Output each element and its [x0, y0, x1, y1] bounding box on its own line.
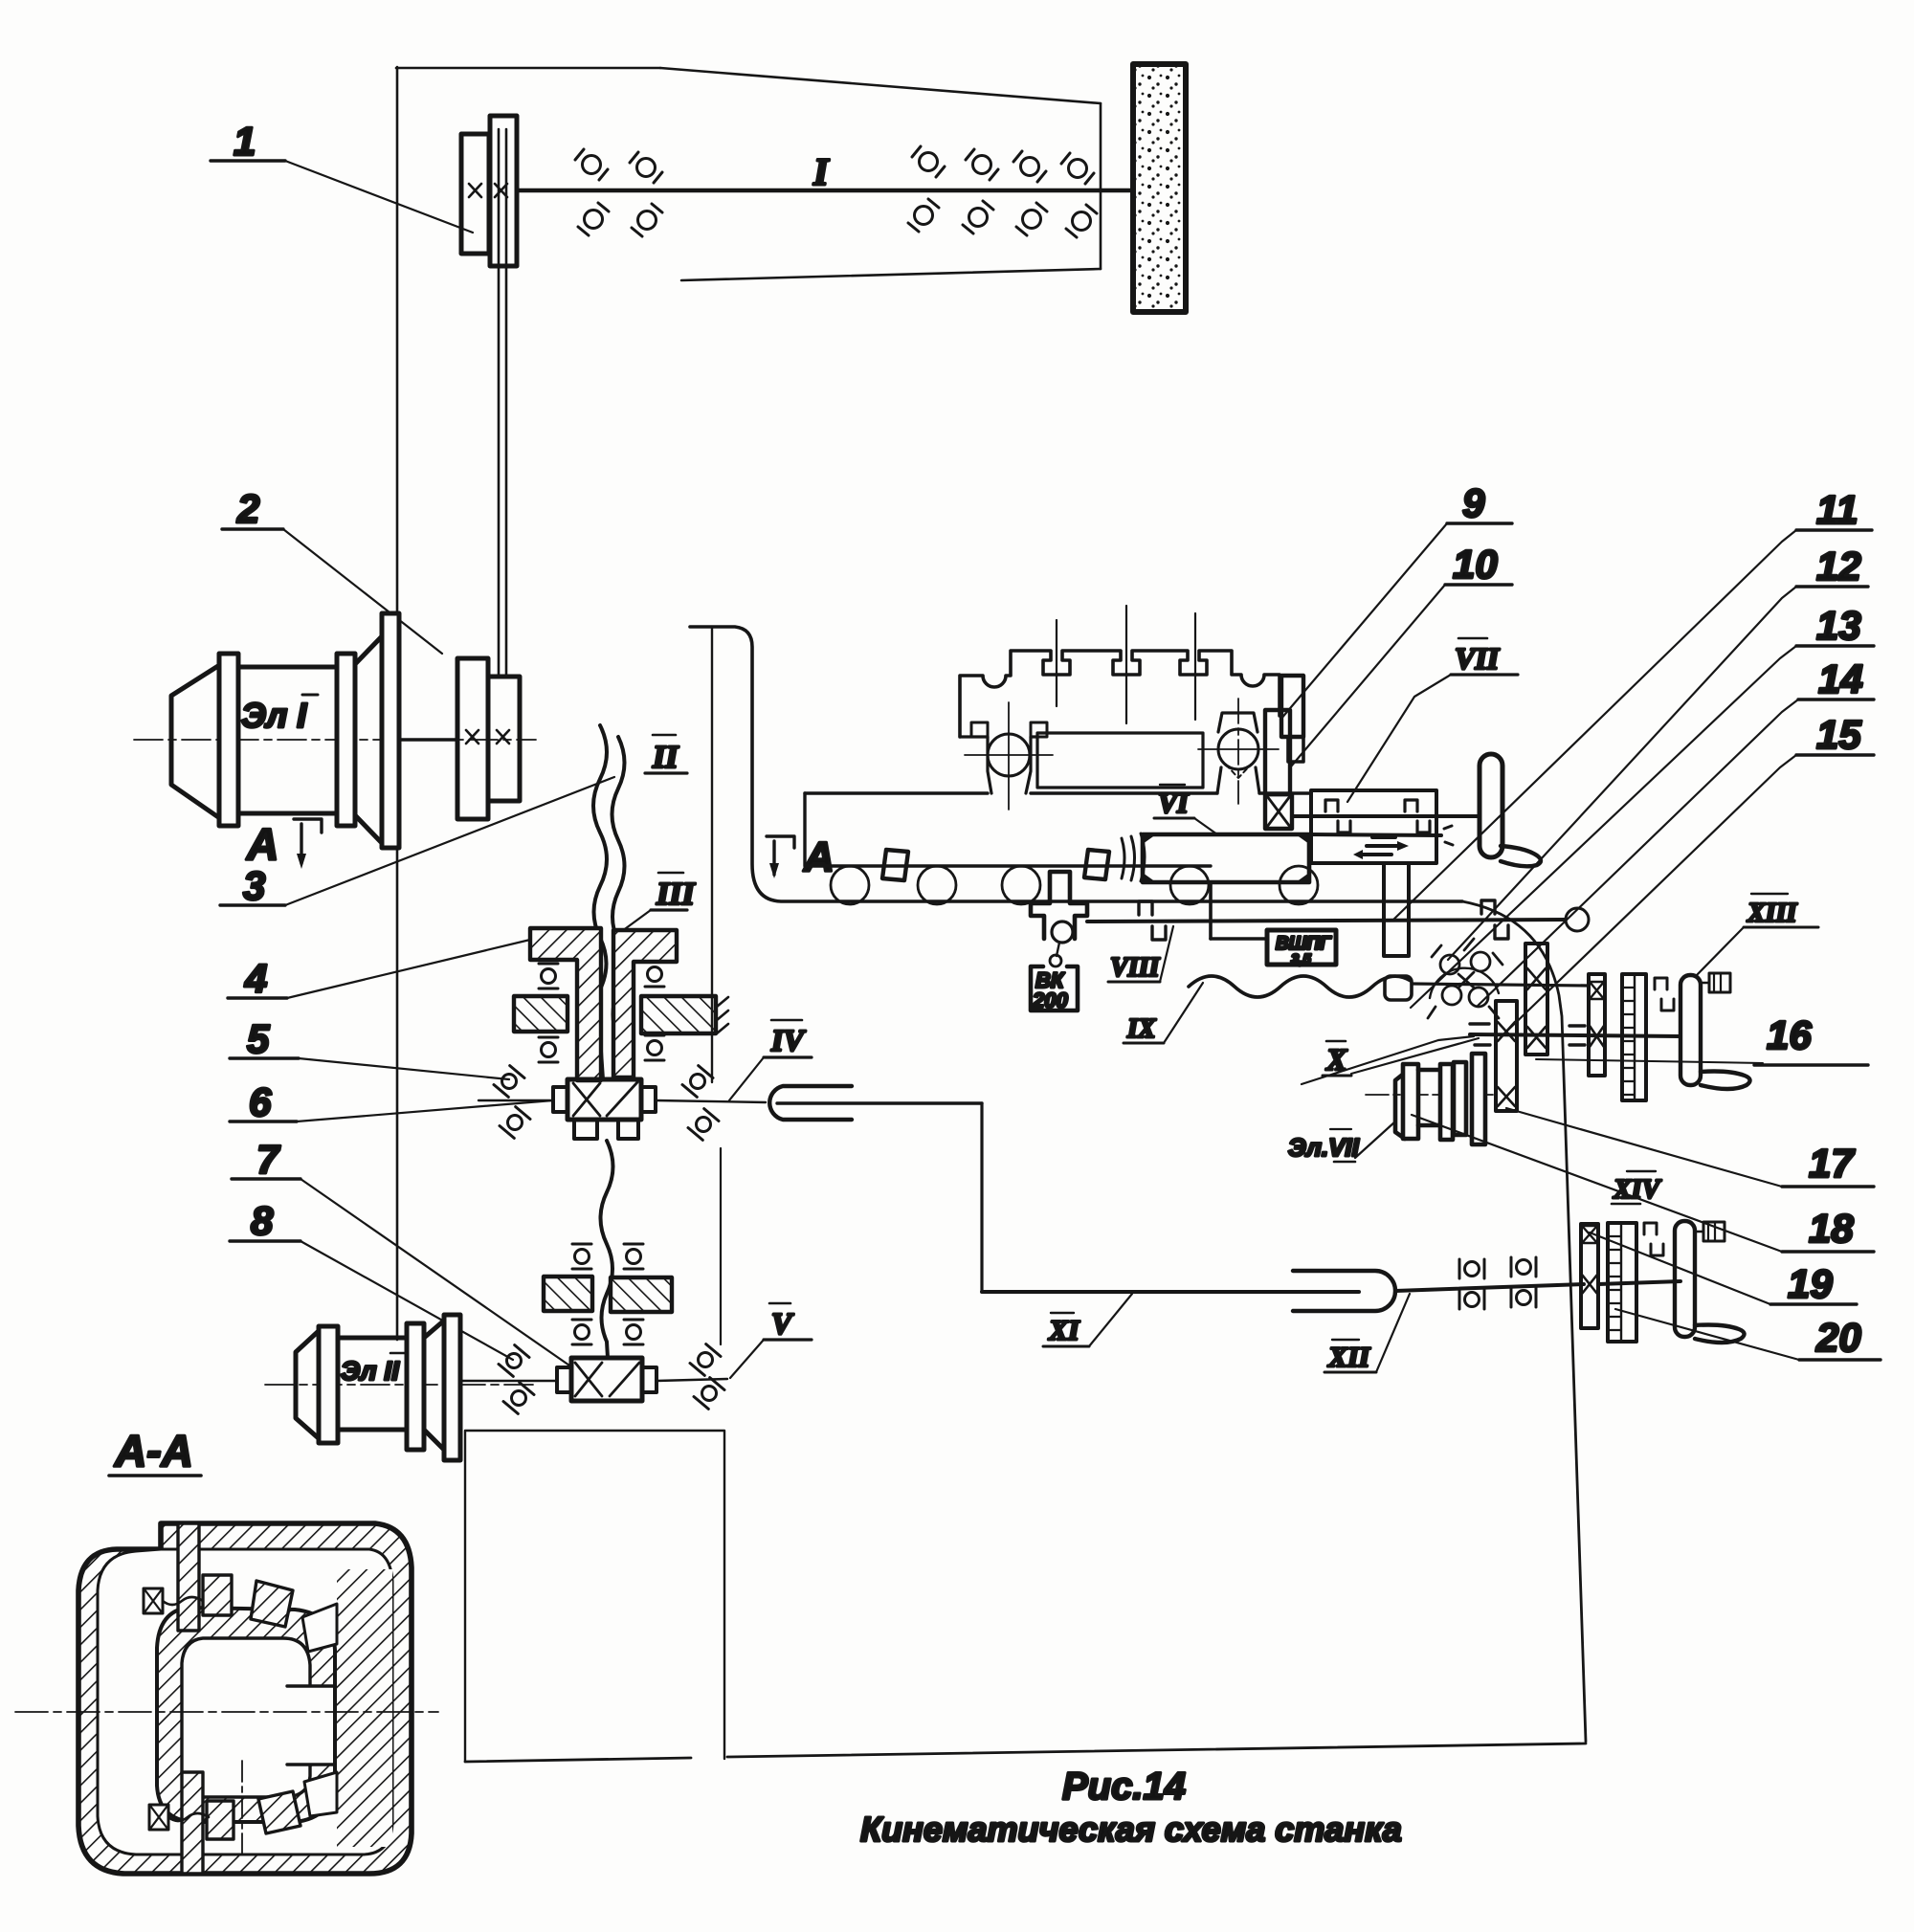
- motor EL-I taper to flange: [355, 635, 383, 844]
- motor EL-I body: [238, 667, 339, 813]
- A-A top bearing block: [203, 1575, 232, 1615]
- gear shift arrows in box: [1363, 837, 1397, 855]
- gear pair symbols on shaft I (right group): [912, 146, 945, 177]
- screw end XIV: [1695, 1231, 1703, 1233]
- chain IX wavy line: [1189, 976, 1411, 997]
- screw end XIII: [1701, 982, 1709, 985]
- shaft IV: [478, 1099, 553, 1101]
- shaft VII: [1292, 814, 1480, 818]
- svg-text:16: 16: [1767, 1012, 1812, 1057]
- A-A thick right wall (hatched): [337, 1569, 392, 1847]
- bearing V shaft right pair: [690, 1344, 721, 1376]
- wire: wheel head bottom edge: [681, 269, 1101, 280]
- A-A inner wall: [98, 1549, 392, 1854]
- A-A inner housing (hatched): [157, 1608, 335, 1822]
- svg-text:8: 8: [251, 1198, 274, 1243]
- machine bed outline with rounded corners: [690, 627, 1462, 901]
- bearing II right upper: [645, 962, 664, 987]
- motor EL-I shaft to pulley: [399, 738, 457, 741]
- link line IV down to XI: [980, 1103, 983, 1292]
- motor EL-II centre line: [265, 1384, 536, 1386]
- bearing II left upper: [539, 964, 558, 988]
- svg-text:6: 6: [249, 1079, 272, 1124]
- svg-text:1: 1: [234, 119, 256, 164]
- gear pair symbols on shaft I (left group): [575, 149, 608, 180]
- centre line through XIII: [1536, 1059, 1763, 1063]
- motor EL-II body: [338, 1338, 409, 1430]
- A-A bottom bearing block: [207, 1801, 234, 1839]
- saddle lug right: [1084, 850, 1109, 879]
- bearing block with X on shaft VII: [1265, 794, 1292, 829]
- A-A vertical column strip top: [178, 1523, 199, 1631]
- A-A cavity step: [287, 1686, 333, 1765]
- vertical gear column under box: [1384, 863, 1409, 956]
- table underside: [960, 735, 988, 738]
- motor EL-I ring 2: [337, 654, 355, 826]
- drive down from cylinder VI: [1209, 882, 1213, 939]
- wall mount ticks: [717, 997, 728, 1033]
- svg-text:X: X: [1325, 1042, 1347, 1077]
- belt to lower pulley: [498, 129, 501, 675]
- svg-text:XIV: XIV: [1613, 1175, 1662, 1205]
- crank handle XIV: [1695, 1325, 1745, 1344]
- svg-text:3: 3: [243, 863, 265, 908]
- pulley pair P2: [457, 658, 488, 819]
- svg-text:XI: XI: [1048, 1315, 1080, 1346]
- lower body rectangle: [465, 1431, 724, 1762]
- svg-text:10: 10: [1453, 542, 1498, 587]
- shaft XII: [1395, 1284, 1584, 1291]
- svg-text:IV: IV: [770, 1023, 806, 1057]
- svg-text:VII: VII: [1455, 641, 1501, 676]
- shaft IX: [1412, 984, 1589, 986]
- table profile with T-slots: [960, 651, 1280, 737]
- svg-text:А-А: А-А: [114, 1426, 193, 1476]
- gear w lower-left (hatched): [514, 996, 568, 1032]
- A-A bearing box with X (top): [144, 1588, 163, 1613]
- svg-text:18: 18: [1809, 1206, 1854, 1251]
- wire: long left vertical frame line: [396, 67, 399, 1340]
- weight BK200: [1057, 943, 1059, 956]
- gear wheel XIII (toothed): [1622, 974, 1646, 1100]
- A-A housing cavity: [182, 1638, 310, 1797]
- bearing V left upper: [572, 1244, 591, 1269]
- A-A bearing box with X (bottom): [149, 1805, 168, 1830]
- svg-text:А: А: [246, 819, 278, 869]
- bearing column XIV: [1581, 1224, 1598, 1328]
- svg-text:V: V: [771, 1306, 794, 1341]
- hydraulic unit VShPG 3,5: [1267, 930, 1336, 965]
- grinding wheel (abrasive disc): [1133, 64, 1186, 312]
- A-A vertical column strip bottom: [182, 1772, 203, 1874]
- svg-text:I: I: [812, 150, 830, 193]
- svg-text:XII: XII: [1327, 1342, 1371, 1373]
- svg-text:XIII: XIII: [1747, 899, 1797, 928]
- gear V left (hatched): [544, 1277, 592, 1311]
- left journal bearing: [988, 734, 1030, 776]
- gear wheel XIV (toothed): [1608, 1223, 1636, 1342]
- gear column G3: [1589, 974, 1605, 1076]
- gearbox V: [571, 1358, 642, 1401]
- gearbox IV (speed box): [568, 1079, 641, 1120]
- bracket guide 9: [1281, 676, 1303, 737]
- clutch pair VII left: [1325, 800, 1350, 833]
- svg-text:11: 11: [1816, 487, 1858, 532]
- svg-text:15: 15: [1816, 712, 1861, 757]
- fork on shaft XII: [1293, 1271, 1395, 1311]
- shaft X: [1470, 1034, 1680, 1036]
- motor EL-I centre line: [134, 739, 536, 741]
- idler gear block: [1385, 976, 1412, 1000]
- svg-text:III: III: [656, 877, 696, 912]
- wire: top frame edge: [396, 67, 660, 70]
- hook bracket with pulley: [1031, 872, 1087, 939]
- bearing II right lower: [645, 1035, 664, 1060]
- casing arc over cluster: [1430, 968, 1499, 998]
- gearbox VII housing: [1311, 790, 1436, 863]
- svg-text:4: 4: [244, 956, 267, 1001]
- A-A horizontal centre line: [15, 1711, 438, 1713]
- chain II wavy line (double): [593, 725, 607, 1079]
- motor EL-II cone: [296, 1329, 321, 1440]
- A-A white wedge top right: [302, 1604, 337, 1652]
- svg-text:А: А: [803, 833, 835, 880]
- wire: top diagonal to wheel head: [660, 68, 1101, 103]
- A-A white wedge bottom right: [304, 1772, 337, 1816]
- bearing V shaft left pair: [499, 1345, 529, 1377]
- shaft through XIV train: [1598, 1281, 1680, 1284]
- bearing II left lower: [539, 1037, 558, 1062]
- svg-text:Эл I: Эл I: [241, 696, 307, 735]
- handwheel VII: [1480, 754, 1502, 857]
- machine column left edge: [711, 627, 713, 1082]
- motor EL-I ring 1: [219, 654, 238, 826]
- clutch on shaft VIII: [1139, 901, 1166, 940]
- pulley pair P1 on shaft I: [461, 134, 489, 254]
- clutch XIV: [1644, 1223, 1663, 1255]
- right journal bearing: [1218, 729, 1258, 769]
- saddle body: [805, 791, 1311, 794]
- gear column G2 (el-VII drive): [1496, 1001, 1517, 1111]
- shaft I: [518, 189, 1133, 193]
- motor EL-VII: [1366, 1094, 1493, 1096]
- svg-text:2: 2: [236, 486, 259, 531]
- lower feed shaft through box: [1309, 834, 1441, 835]
- clutch pair VII right: [1405, 800, 1430, 833]
- svg-text:7: 7: [256, 1137, 280, 1182]
- motor EL-II flange: [444, 1315, 460, 1460]
- clutch XIII: [1655, 978, 1674, 1010]
- chain II wavy continuation below gearbox IV: [601, 1141, 613, 1358]
- svg-text:Рис.14: Рис.14: [1062, 1765, 1186, 1808]
- gear V right (hatched): [611, 1277, 672, 1312]
- A-A outer casing (hatched ring): [78, 1523, 412, 1874]
- motor EL-II ring 1: [319, 1326, 338, 1443]
- cylinder VI (table drive drum): [1143, 834, 1309, 882]
- svg-text:200: 200: [1032, 988, 1068, 1012]
- T-slot centre lines: [1056, 620, 1057, 706]
- svg-text:20: 20: [1815, 1315, 1861, 1360]
- machine bottom edge: [465, 1758, 691, 1762]
- table rollers: [831, 866, 869, 904]
- svg-text:Эл II: Эл II: [341, 1356, 400, 1386]
- fork on shaft IV: [769, 1086, 852, 1120]
- shaft VIII: [1087, 920, 1566, 922]
- svg-text:17: 17: [1809, 1141, 1855, 1186]
- wheelhead slide 10: [1265, 710, 1290, 794]
- workpiece between centres: [1037, 733, 1203, 788]
- svg-text:5: 5: [247, 1016, 270, 1061]
- shaft XI long feed line: [982, 1290, 1359, 1294]
- svg-text:12: 12: [1816, 544, 1861, 588]
- wire: wheel head right edge: [1100, 103, 1102, 269]
- machine bed outline arc to right column: [1462, 901, 1586, 1742]
- section arrow A (right): [767, 836, 794, 848]
- ball end of shaft VIII: [1566, 908, 1589, 931]
- machine niche outline near motor EL-VII: [1302, 1036, 1474, 1084]
- motor EL-I cone: [171, 664, 221, 819]
- bearings on shaft XII: [1459, 1259, 1484, 1278]
- svg-text:3,5: 3,5: [1291, 951, 1312, 967]
- svg-text:19: 19: [1788, 1261, 1833, 1306]
- bearing V right upper: [624, 1244, 643, 1269]
- handwheel XIV: [1675, 1221, 1695, 1337]
- motor EL-I flange: [382, 613, 399, 848]
- bearing IV left pair: [494, 1066, 524, 1098]
- saddle lug left: [882, 850, 908, 880]
- crank handle XIII: [1701, 1072, 1750, 1090]
- gear block III left (hatched): [530, 928, 601, 1080]
- gear column G1: [1525, 944, 1547, 1055]
- bearing IV right pair: [682, 1066, 713, 1098]
- svg-text:VIII: VIII: [1110, 953, 1160, 983]
- belt flutter arcs: [1122, 833, 1145, 881]
- thin guide line right of gearbox IV: [720, 1148, 722, 1344]
- svg-text:9: 9: [1462, 480, 1485, 525]
- motor EL-II taper: [424, 1321, 444, 1450]
- gear block III right (hatched): [613, 930, 677, 1077]
- svg-text:Эл.VII: Эл.VII: [1288, 1133, 1360, 1162]
- svg-text:IX: IX: [1126, 1014, 1157, 1044]
- A-A vertical centre line: [241, 1761, 243, 1858]
- handwheel XIII: [1680, 975, 1701, 1085]
- motor EL-II ring 2: [407, 1323, 424, 1450]
- svg-text:13: 13: [1816, 603, 1861, 648]
- clutch 2 on shaft VIII: [1481, 900, 1508, 939]
- shaft V: [459, 1380, 557, 1382]
- bevel bearing cluster: [1440, 955, 1459, 974]
- svg-text:14: 14: [1818, 656, 1863, 701]
- svg-text:Кинематическая схема станка: Кинематическая схема станка: [860, 1810, 1402, 1849]
- gear w lower-right (hatched): [641, 996, 716, 1033]
- svg-text:VI: VI: [1158, 788, 1190, 819]
- svg-text:II: II: [652, 740, 679, 775]
